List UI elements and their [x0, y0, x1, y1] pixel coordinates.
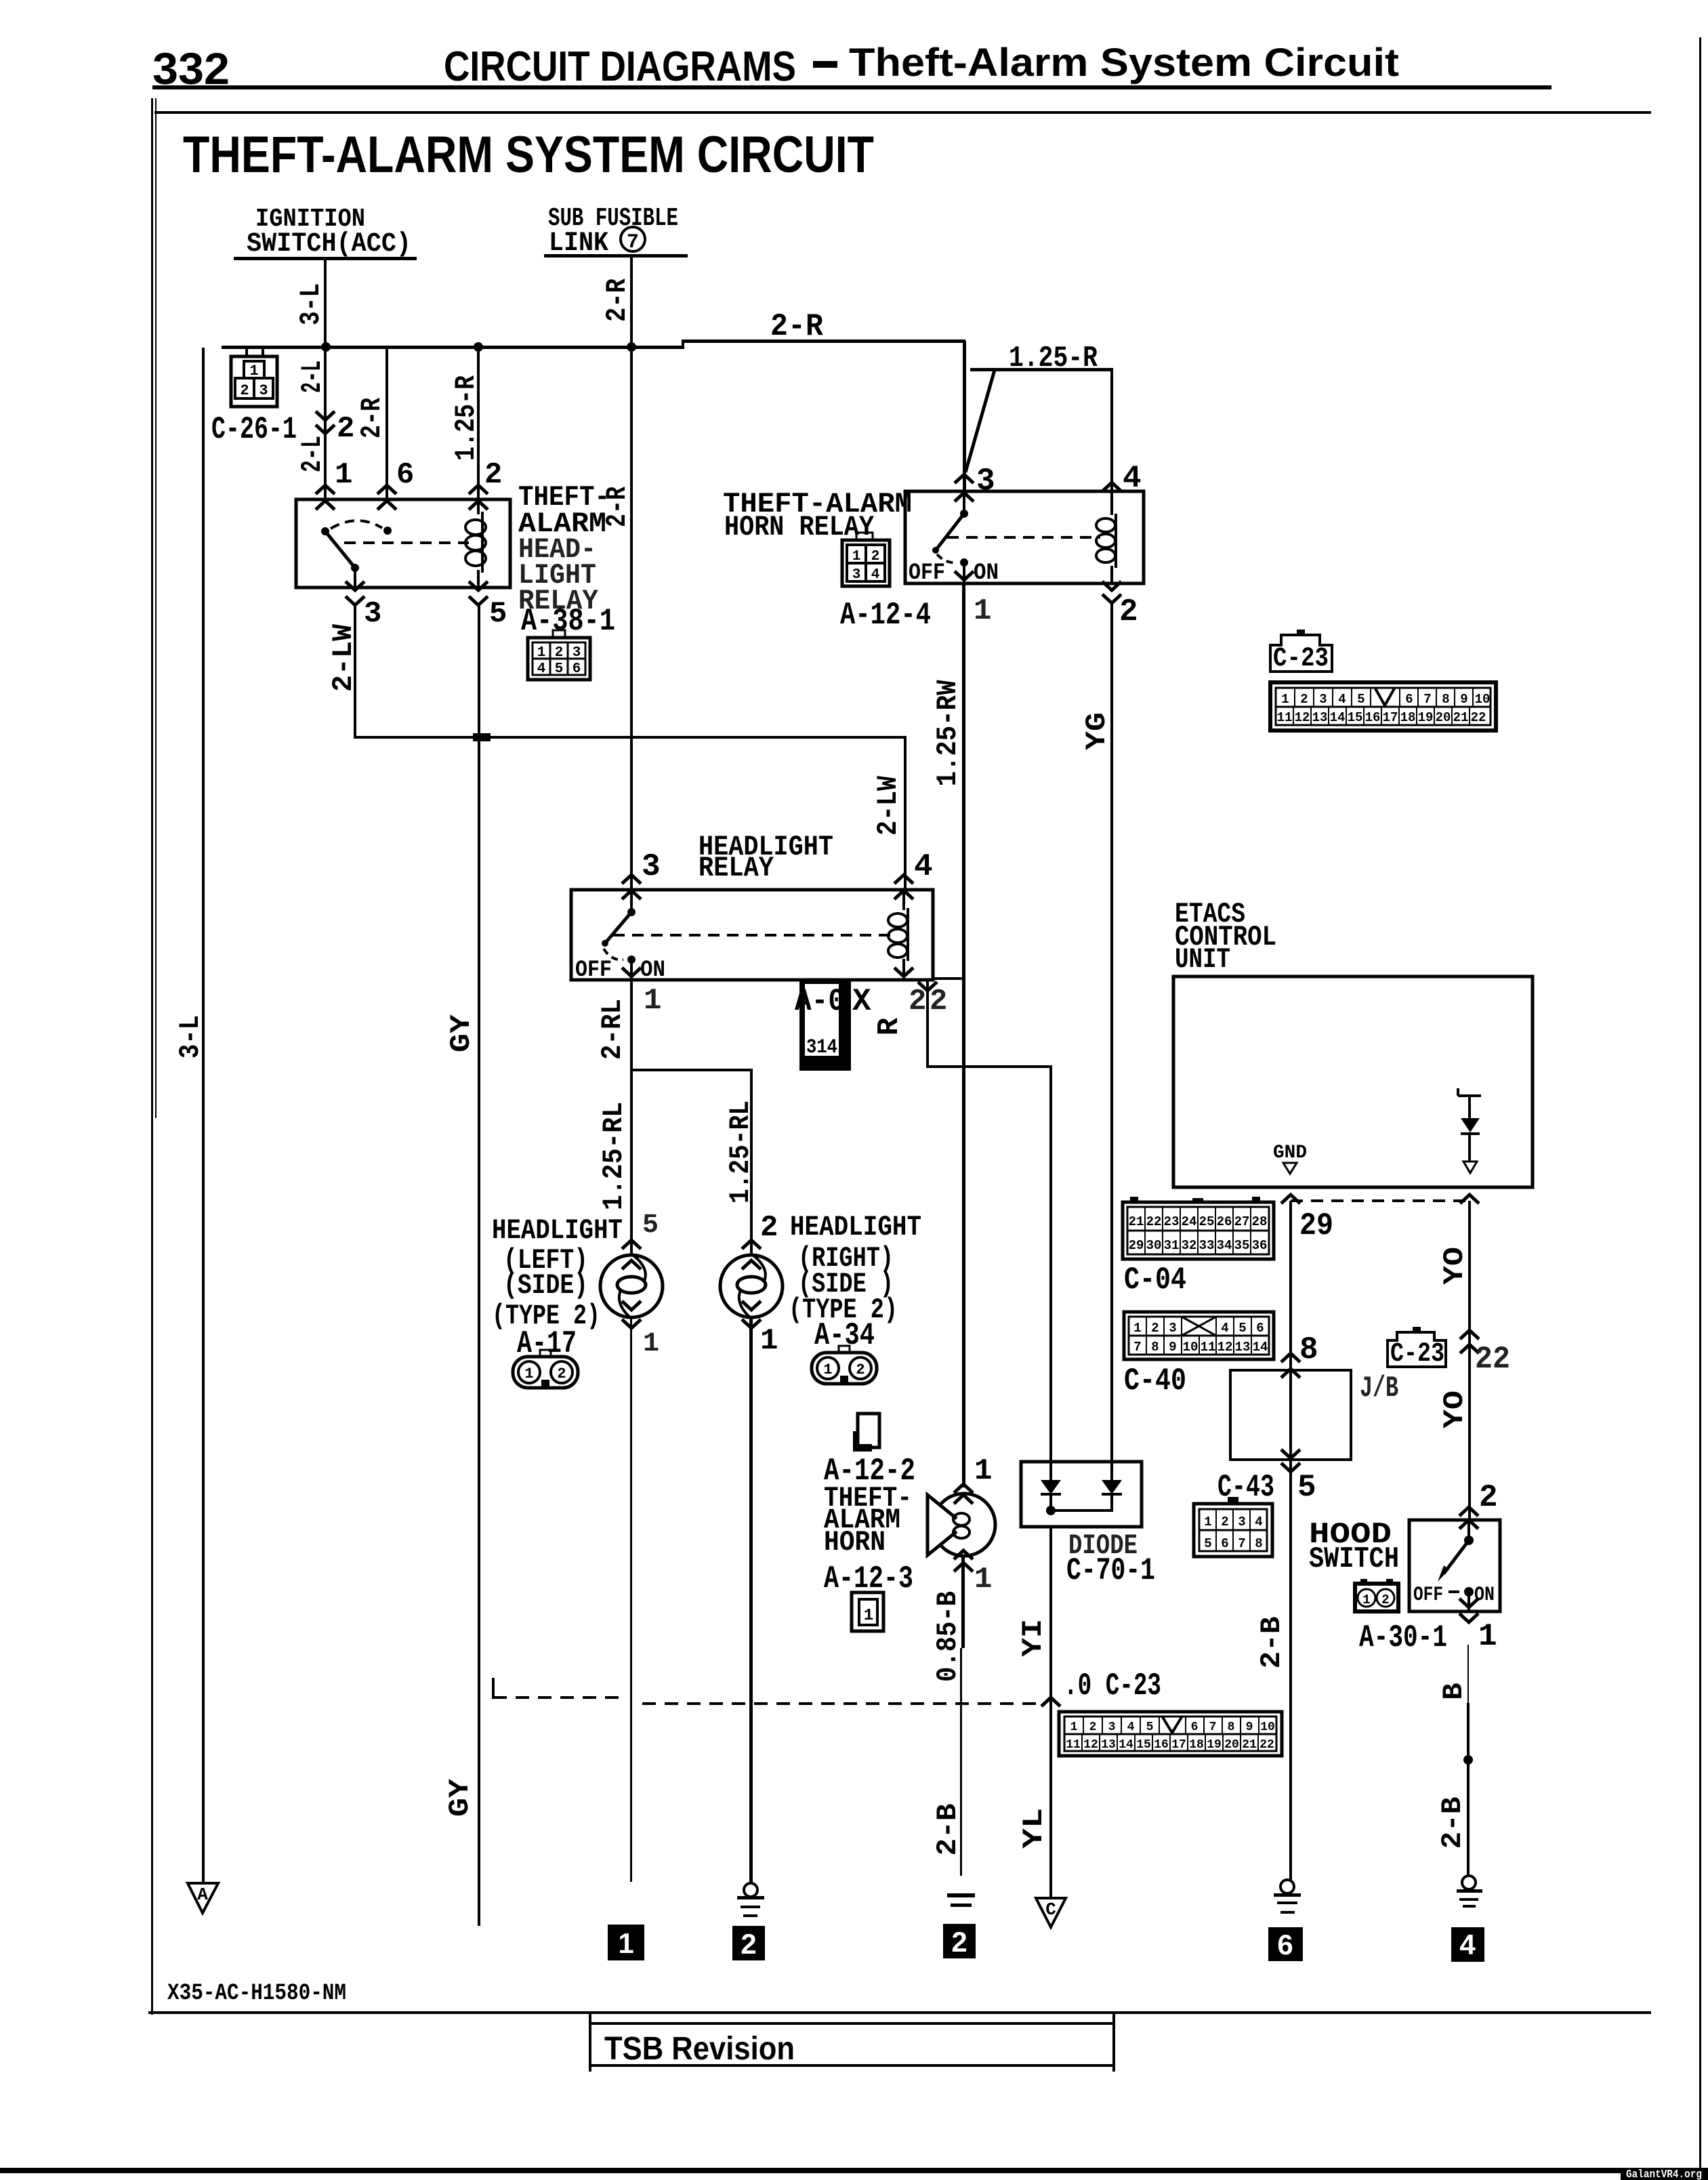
svg-text:26: 26 — [1217, 1214, 1232, 1229]
connector C-23 top right 22pin — [1270, 682, 1496, 731]
svg-text:19: 19 — [1418, 710, 1434, 725]
wire 2-LW down from pin 3 — [354, 605, 356, 737]
svg-text:YL: YL — [1018, 1808, 1050, 1849]
svg-text:13: 13 — [1235, 1340, 1251, 1355]
svg-text:1: 1 — [1362, 1592, 1370, 1607]
svg-text:YO: YO — [1438, 1391, 1471, 1428]
hood switch box — [1409, 1520, 1500, 1611]
svg-text:2-LW: 2-LW — [872, 775, 904, 836]
svg-text:HORN: HORN — [824, 1526, 886, 1559]
horn relay contact wire inside — [963, 491, 965, 514]
svg-text:ON: ON — [974, 560, 999, 586]
svg-text:THEFT-ALARM SYSTEM CIRCUIT: THEFT-ALARM SYSTEM CIRCUIT — [183, 126, 874, 184]
horn relay ON node — [960, 558, 968, 567]
svg-text:9: 9 — [1246, 1721, 1253, 1734]
C-23 crossing arrows on YO wire — [1460, 1330, 1479, 1339]
wire 2-LW drop to headlight relay pin 4 — [904, 736, 907, 890]
hood switch blade — [1444, 1540, 1469, 1574]
svg-text:1.25-R: 1.25-R — [1009, 342, 1098, 375]
pin 1 arrows into relay — [316, 485, 335, 494]
relay box headlight relay — [571, 890, 933, 980]
ink blob at GY crossing — [473, 733, 491, 741]
svg-text:4: 4 — [1338, 692, 1346, 707]
ground point box 2 — [732, 1926, 765, 1960]
svg-text:5: 5 — [1297, 1470, 1316, 1505]
svg-text:31: 31 — [1164, 1238, 1180, 1253]
label IGNITION SWITCH(ACC) — [234, 205, 417, 260]
junction block J/B box — [1230, 1370, 1351, 1460]
svg-text:CIRCUIT DIAGRAMS: CIRCUIT DIAGRAMS — [444, 43, 796, 90]
svg-text:15: 15 — [1136, 1738, 1151, 1752]
connector C-40 — [1124, 1312, 1274, 1359]
svg-text:YI: YI — [1017, 1619, 1049, 1657]
svg-text:13: 13 — [1101, 1738, 1116, 1752]
left bulb bottom arrows — [622, 1301, 641, 1310]
right bulb bottom arrows — [742, 1301, 761, 1310]
svg-text:HEADLIGHT: HEADLIGHT — [492, 1214, 623, 1247]
svg-text:1: 1 — [1281, 692, 1289, 707]
svg-text:12: 12 — [1083, 1738, 1098, 1752]
wire headlight split horizontal — [630, 1069, 753, 1071]
bus wire segment A — [222, 346, 684, 349]
svg-text:17: 17 — [1171, 1738, 1186, 1752]
svg-text:11: 11 — [1066, 1738, 1081, 1752]
svg-text:2-L: 2-L — [296, 436, 329, 472]
svg-text:ON: ON — [1474, 1584, 1495, 1607]
svg-text:22: 22 — [1146, 1214, 1162, 1229]
connector arrow on YI wire — [1041, 1698, 1060, 1706]
svg-text:8: 8 — [1442, 692, 1449, 707]
pin 3 arrows horn relay — [955, 474, 974, 483]
wire 1.25-RL right branch — [750, 1069, 753, 1255]
svg-text:1: 1 — [537, 645, 546, 661]
ground symbol horn wire — [947, 1893, 975, 1907]
diode join wire — [1051, 1509, 1113, 1512]
hood switch wire inside — [1467, 1520, 1470, 1540]
svg-text:1: 1 — [1070, 1721, 1078, 1734]
pin 3 arrows headlight relay — [622, 875, 641, 884]
diode join node — [1046, 1506, 1056, 1515]
pin 6 arrows into relay — [377, 485, 396, 494]
svg-text:8: 8 — [1299, 1332, 1318, 1367]
connector A-17 symbol — [513, 1350, 578, 1388]
svg-text:(SIDE): (SIDE) — [503, 1269, 588, 1302]
svg-text:12: 12 — [1217, 1340, 1233, 1355]
svg-text:1: 1 — [864, 1607, 873, 1625]
svg-text:C-43: C-43 — [1217, 1470, 1274, 1505]
svg-text:YO: YO — [1438, 1247, 1471, 1285]
horn relay blade elbow node — [932, 547, 939, 554]
offpage arrow A — [188, 1883, 218, 1913]
svg-text:2: 2 — [1479, 1480, 1498, 1515]
svg-text:36: 36 — [1252, 1238, 1268, 1253]
wire 0.85-B thin continuation — [960, 1648, 962, 1876]
pin 2 arrow headlight relay — [894, 968, 913, 976]
horn relay switch blade — [936, 514, 964, 550]
svg-text:4: 4 — [537, 661, 546, 677]
connector A-12-4 symbol — [842, 533, 890, 586]
junction node at 1.25-R branch — [474, 342, 483, 352]
svg-text:4: 4 — [871, 567, 880, 583]
svg-text:21: 21 — [1453, 710, 1469, 725]
horn relay dashed actuator line — [947, 536, 1100, 539]
wire right headlight to ground — [749, 1317, 753, 1883]
svg-text:C-40: C-40 — [1124, 1363, 1186, 1399]
diode box C-70-1 — [1021, 1462, 1142, 1527]
wire pin3 inside relay — [354, 568, 356, 588]
svg-text:3: 3 — [1319, 692, 1327, 707]
svg-text:1.25-RW: 1.25-RW — [932, 680, 964, 787]
svg-text:10: 10 — [1183, 1340, 1199, 1355]
connector C-23 bottom 22pin — [1059, 1712, 1282, 1756]
svg-text:6: 6 — [572, 661, 581, 677]
svg-text:2: 2 — [337, 412, 354, 446]
diode left — [1041, 1462, 1061, 1510]
ground point box 2 horn — [943, 1924, 976, 1958]
frame left double line — [151, 98, 153, 2015]
headlight relay ON wire to pin 1 — [630, 960, 633, 980]
svg-text:7: 7 — [1209, 1721, 1217, 1734]
pin 3 arrows below relay — [346, 581, 364, 590]
svg-text:2: 2 — [1300, 692, 1308, 707]
svg-text:2-B: 2-B — [1436, 1797, 1469, 1849]
svg-text:21: 21 — [1242, 1738, 1257, 1752]
svg-text:2: 2 — [741, 1928, 756, 1960]
right headlight bulb — [720, 1255, 783, 1317]
svg-text:0.85-B: 0.85-B — [932, 1591, 964, 1682]
junction node at ignition wire — [321, 342, 331, 352]
watermark GalantVR4.org — [1621, 2168, 1708, 2180]
connector A-30-1 symbol — [1355, 1579, 1398, 1611]
svg-text:2: 2 — [909, 985, 926, 1019]
label ETACS CONTROL UNIT — [1175, 898, 1276, 976]
pin 1 arrow headlight relay — [622, 968, 641, 976]
svg-text:1: 1 — [760, 1324, 778, 1358]
wire YO from ETACS diode pin — [1468, 1201, 1471, 1520]
svg-text:12: 12 — [1295, 710, 1310, 725]
hood switch ON wire — [1467, 1592, 1470, 1611]
hood switch blade dashed tail — [1449, 1590, 1459, 1593]
svg-text:14: 14 — [1119, 1738, 1133, 1752]
wire YI below diode — [1049, 1527, 1052, 1897]
bottom black bar — [0, 2168, 1708, 2173]
svg-text:3: 3 — [852, 567, 861, 583]
svg-text:2: 2 — [1381, 1592, 1389, 1607]
svg-text:C: C — [1045, 1899, 1056, 1920]
hood switch contact node — [1464, 1536, 1474, 1545]
wire 1.25-R drop to pin 4 — [1110, 369, 1113, 491]
label THEFT-ALARM HEAD-LIGHT RELAY — [518, 481, 610, 617]
theft-alarm horn symbol — [928, 1494, 995, 1556]
header dash — [813, 61, 837, 68]
hood switch pin 1 arrows — [1459, 1599, 1478, 1607]
svg-text:13: 13 — [1312, 710, 1328, 725]
svg-text:2: 2 — [557, 1365, 566, 1382]
headlight relay contact wire inside — [630, 890, 633, 912]
svg-text:A-12-4: A-12-4 — [840, 598, 931, 633]
svg-text:25: 25 — [1199, 1214, 1215, 1229]
svg-text:16: 16 — [1154, 1738, 1169, 1752]
wire 1.25-RW from horn relay pin 1 — [962, 583, 965, 1487]
svg-text:7: 7 — [1238, 1536, 1245, 1551]
svg-text:7: 7 — [1423, 692, 1431, 707]
svg-text:2: 2 — [1119, 594, 1138, 630]
dashed line between ETACS pins — [1291, 1199, 1470, 1202]
page right border — [1699, 37, 1701, 2180]
svg-text:23: 23 — [1164, 1214, 1180, 1229]
svg-text:4: 4 — [1221, 1321, 1228, 1336]
svg-text:14: 14 — [1330, 710, 1346, 725]
wire 2-R down to headlight relay pin 3 — [630, 349, 633, 890]
relay dashed actuator line — [344, 541, 469, 544]
wire bus corner drop to horn relay pin 3 — [963, 341, 966, 491]
svg-text:4: 4 — [1127, 1721, 1135, 1734]
svg-text:3: 3 — [1108, 1721, 1116, 1734]
svg-text:24: 24 — [1182, 1214, 1197, 1229]
connector C-43 — [1194, 1497, 1272, 1557]
svg-text:7: 7 — [1133, 1340, 1141, 1355]
connector C-23 icon mid right — [1388, 1327, 1446, 1370]
relay box theft-alarm horn relay — [905, 491, 1144, 583]
svg-text:15: 15 — [1348, 710, 1363, 725]
TSB revision box — [589, 2013, 1115, 2072]
connector A-38-1 symbol — [528, 630, 590, 680]
svg-text:3: 3 — [642, 849, 661, 884]
svg-text:1: 1 — [852, 549, 861, 564]
dashed connector line right segment — [642, 1702, 1042, 1705]
headlight relay blade elbow node — [602, 940, 608, 947]
svg-text:1: 1 — [1204, 1515, 1211, 1529]
ground symbol hood wire — [1457, 1876, 1482, 1908]
svg-text:UNIT: UNIT — [1175, 943, 1230, 976]
svg-text:18: 18 — [1400, 710, 1416, 725]
svg-text:2: 2 — [1089, 1721, 1097, 1734]
right bulb top arrows — [742, 1240, 761, 1249]
ETACS control unit box — [1173, 976, 1533, 1187]
svg-text:HEADLIGHT: HEADLIGHT — [790, 1211, 921, 1243]
svg-text:17: 17 — [1383, 710, 1398, 725]
svg-text:2-RL: 2-RL — [596, 999, 629, 1060]
svg-text:5: 5 — [1146, 1721, 1154, 1734]
svg-text:X: X — [852, 984, 871, 1019]
svg-text:1.25-RL: 1.25-RL — [598, 1102, 630, 1210]
svg-text:3: 3 — [1169, 1321, 1176, 1336]
pin 4 arrows headlight relay — [894, 875, 913, 884]
bus jog — [682, 340, 684, 349]
junction connector A-01X black box — [799, 979, 851, 1071]
svg-text:SWITCH: SWITCH — [1309, 1542, 1399, 1576]
svg-text:C-23: C-23 — [1390, 1339, 1444, 1370]
pin 2 arrow R wire stub — [918, 982, 937, 991]
connector C-04 — [1123, 1197, 1274, 1259]
label HOOD SWITCH — [1309, 1518, 1399, 1576]
svg-text:A-30-1: A-30-1 — [1359, 1620, 1447, 1655]
svg-text:.0 C-23: .0 C-23 — [1064, 1668, 1161, 1704]
svg-text:2-B: 2-B — [1255, 1617, 1288, 1669]
svg-text:1: 1 — [974, 594, 991, 628]
svg-text:314: 314 — [806, 1036, 837, 1059]
svg-text:A-38-1: A-38-1 — [521, 604, 615, 639]
wire 1.25-R branch to pin 2 — [477, 349, 480, 499]
svg-text:1: 1 — [524, 1365, 533, 1382]
svg-text:GalantVR4.org: GalantVR4.org — [1626, 2168, 1702, 2180]
horn relay blade dashed tail — [937, 554, 957, 562]
svg-text:3: 3 — [259, 382, 268, 399]
svg-text:R: R — [873, 1017, 907, 1035]
GND triangle — [1283, 1163, 1297, 1174]
svg-text:16: 16 — [1365, 710, 1381, 725]
svg-text:34: 34 — [1217, 1238, 1232, 1253]
wire R drop to diode — [1049, 1065, 1052, 1462]
svg-text:8: 8 — [1255, 1536, 1262, 1551]
wire YG from horn relay pin 2 — [1110, 603, 1113, 1462]
headlight relay contact node — [627, 908, 636, 916]
junction node hood wire — [1463, 1755, 1473, 1765]
svg-text:2: 2 — [555, 645, 564, 661]
headlight relay coil — [888, 890, 909, 980]
svg-text:35: 35 — [1234, 1238, 1250, 1253]
horn bottom arrows — [954, 1550, 973, 1559]
svg-text:SWITCH(ACC): SWITCH(ACC) — [247, 229, 411, 260]
connector A-34 symbol — [812, 1346, 877, 1384]
svg-text:2: 2 — [484, 458, 502, 492]
svg-text:OFF: OFF — [1413, 1584, 1443, 1607]
horn relay ON wire to pin 1 — [963, 562, 965, 583]
svg-text:2: 2 — [951, 1926, 967, 1958]
relay coil — [465, 499, 486, 588]
svg-text:GND: GND — [1273, 1143, 1307, 1164]
svg-text:1: 1 — [335, 458, 352, 492]
ground point box 6 — [1268, 1927, 1303, 1961]
svg-text:4: 4 — [1459, 1929, 1476, 1960]
left bulb top arrows — [622, 1240, 641, 1249]
svg-text:B: B — [1438, 1683, 1470, 1700]
frame top line — [154, 111, 1651, 114]
wire 3-L from ignition switch — [324, 260, 327, 348]
svg-text:6: 6 — [396, 458, 414, 492]
svg-text:32: 32 — [1182, 1238, 1197, 1253]
svg-text:18: 18 — [1189, 1738, 1204, 1752]
svg-text:5: 5 — [1238, 1321, 1246, 1336]
relay dashed arc between contacts — [331, 520, 382, 529]
svg-text:21: 21 — [1129, 1214, 1144, 1229]
dashed connector line left tick — [492, 1678, 495, 1699]
svg-text:OFF: OFF — [575, 958, 612, 983]
svg-text:11: 11 — [1277, 710, 1293, 725]
pin 2 arrows below horn relay — [1102, 581, 1121, 590]
hood switch pin 2 arrows — [1459, 1507, 1478, 1516]
wire left headlight to bottom — [630, 1317, 632, 1882]
svg-text:9: 9 — [1169, 1340, 1176, 1355]
headlight relay ON node — [627, 955, 636, 964]
relay contact node pin6 — [383, 527, 392, 535]
horn relay contact node — [960, 510, 968, 518]
svg-text:3: 3 — [364, 597, 381, 631]
svg-text:1: 1 — [974, 1454, 992, 1488]
svg-text:2: 2 — [1151, 1321, 1159, 1336]
svg-text:6: 6 — [1277, 1929, 1293, 1960]
svg-text:TSB Revision: TSB Revision — [604, 2031, 795, 2067]
svg-text:20: 20 — [1224, 1738, 1239, 1752]
frame bottom line — [148, 2011, 1651, 2014]
svg-text:1: 1 — [974, 1563, 992, 1597]
svg-text:2: 2 — [871, 549, 880, 564]
svg-text:1: 1 — [643, 1329, 659, 1359]
label HEADLIGHT (RIGHT SIDE) (TYPE 2) — [789, 1211, 921, 1353]
svg-text:2: 2 — [856, 1361, 865, 1378]
relay blade elbow node — [351, 564, 359, 572]
svg-text:2: 2 — [760, 1211, 778, 1245]
label A-01X — [795, 984, 871, 1019]
svg-text:GY: GY — [444, 1778, 476, 1817]
svg-text:2: 2 — [240, 382, 249, 399]
svg-text:5: 5 — [1357, 692, 1365, 707]
pin 4 arrow horn relay — [1102, 482, 1121, 491]
svg-text:C-70-1: C-70-1 — [1066, 1553, 1155, 1588]
svg-text:6: 6 — [1191, 1721, 1199, 1734]
label HEADLIGHT (LEFT SIDE) (TYPE 2) — [492, 1214, 623, 1361]
svg-text:2-R: 2-R — [770, 309, 823, 344]
ETACS internal diode — [1458, 1088, 1481, 1173]
svg-text:A-0: A-0 — [795, 984, 845, 1019]
svg-text:10: 10 — [1475, 692, 1491, 707]
wire 0.85-B below horn — [961, 1556, 965, 1648]
svg-text:2-R: 2-R — [356, 397, 388, 438]
svg-text:3: 3 — [976, 464, 995, 499]
connector C-26-1 symbol — [231, 348, 277, 407]
wire 1.25-RL left branch — [630, 1071, 633, 1255]
headlight relay dashed actuator line — [613, 934, 897, 937]
svg-text:5: 5 — [555, 661, 564, 677]
svg-text:27: 27 — [1234, 1214, 1250, 1229]
svg-text:C-26-1: C-26-1 — [211, 412, 297, 447]
svg-text:C-04: C-04 — [1124, 1262, 1186, 1298]
svg-text:33: 33 — [1199, 1238, 1215, 1253]
svg-text:2: 2 — [1221, 1515, 1228, 1529]
svg-text:3-L: 3-L — [295, 283, 327, 325]
J/B bottom arrows — [1281, 1449, 1300, 1458]
ETACS diode pin arrow — [1460, 1195, 1479, 1204]
wire GY down from pin 5 — [478, 605, 480, 1926]
svg-text:1: 1 — [1133, 1321, 1141, 1336]
svg-text:5: 5 — [642, 1210, 659, 1241]
svg-text:A-34: A-34 — [814, 1318, 875, 1353]
wire 1.25-R horizontal — [970, 368, 1113, 371]
pin 5 arrows below relay — [469, 581, 488, 590]
wire 2-R from sub fusible link — [630, 258, 633, 347]
connector crossing arrows pin 2 — [316, 411, 335, 420]
svg-text:4: 4 — [1255, 1515, 1262, 1529]
connector A-12-3 symbol — [852, 1592, 883, 1631]
svg-text:1.25-RL: 1.25-RL — [724, 1101, 757, 1204]
ground symbol ETACS wire — [1274, 1880, 1301, 1914]
bus wire segment B — [682, 340, 965, 343]
svg-text:30: 30 — [1146, 1238, 1162, 1253]
hood switch blade arrowhead — [1438, 1565, 1449, 1582]
svg-text:2-L: 2-L — [296, 361, 329, 393]
svg-text:29: 29 — [1129, 1238, 1144, 1253]
wire R stub down — [926, 980, 929, 1068]
svg-text:3-L: 3-L — [174, 1015, 207, 1058]
svg-text:22: 22 — [1259, 1738, 1274, 1752]
svg-text:X35-AC-H1580-NM: X35-AC-H1580-NM — [167, 1981, 346, 2007]
svg-text:1.25-R: 1.25-R — [450, 375, 482, 461]
connector A-12-2 symbol — [853, 1414, 879, 1452]
pin 8 arrow into J/B — [1281, 1353, 1300, 1362]
connector C-23 icon top right — [1270, 630, 1332, 674]
hood switch ON node — [1464, 1587, 1474, 1597]
svg-text:3: 3 — [572, 645, 581, 661]
